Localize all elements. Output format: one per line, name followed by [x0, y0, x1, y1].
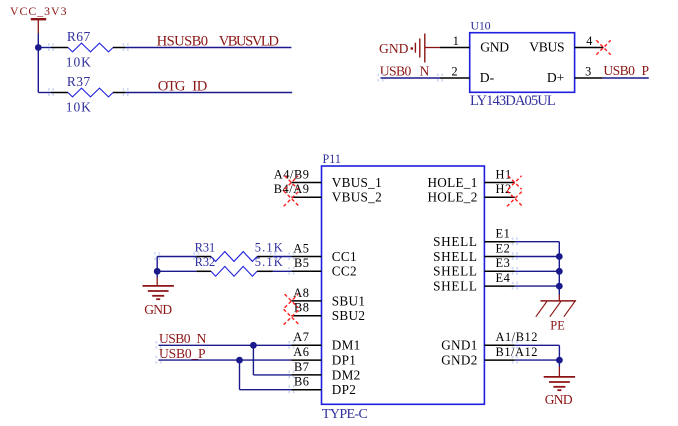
svg-text:SBU2: SBU2 — [332, 308, 365, 323]
svg-text:GND: GND — [545, 392, 573, 407]
svg-text:USB0_P: USB0_P — [159, 346, 206, 361]
no-connect X at pin H2 — [507, 191, 523, 207]
svg-text:B4/A9: B4/A9 — [274, 182, 310, 196]
svg-text:HOLE_1: HOLE_1 — [427, 175, 477, 190]
svg-text:TYPE-C: TYPE-C — [322, 407, 368, 422]
svg-text:5.1K: 5.1K — [255, 240, 284, 254]
svg-text:SBU1: SBU1 — [332, 293, 365, 308]
pin A7 / DM1 of P11 — [291, 330, 360, 353]
svg-text:USB0: USB0 — [159, 331, 191, 346]
net label USB0_P (U10) — [603, 63, 649, 78]
svg-text:PE: PE — [550, 319, 565, 333]
svg-text:VBUS_2: VBUS_2 — [332, 190, 382, 205]
junction GND2 — [556, 357, 563, 364]
junction E3 — [556, 268, 563, 275]
resistor R31 5.1K — [195, 240, 284, 261]
wire shell bus vertical — [558, 242, 560, 295]
svg-text:A4/B9: A4/B9 — [274, 167, 310, 181]
pin B1/A12 / GND2 of P11 — [441, 345, 538, 368]
pin E2 / SHELL of P11 — [433, 241, 515, 264]
svg-text:DM2: DM2 — [332, 367, 361, 382]
wire R31 to pin A5 — [273, 256, 292, 258]
svg-text:HSUSB0: HSUSB0 — [157, 33, 208, 49]
no-connect X at pin A4/B9 — [285, 176, 299, 190]
pin E4 / SHELL of P11 — [433, 271, 515, 294]
svg-text:B5: B5 — [294, 256, 310, 270]
svg-text:A7: A7 — [293, 330, 309, 344]
svg-text:E2: E2 — [496, 241, 511, 255]
junction CC2 / GND — [154, 268, 161, 275]
svg-text:VCC_3V3: VCC_3V3 — [10, 4, 67, 18]
wire to pin B7 — [253, 374, 291, 376]
svg-text:DM1: DM1 — [332, 338, 361, 353]
svg-text:VBUS: VBUS — [529, 40, 564, 55]
svg-text:5.1K: 5.1K — [255, 255, 284, 269]
pin A8 / SBU1 of P11 — [291, 286, 365, 309]
wire vertical DM1 to DM2 — [252, 345, 254, 375]
svg-text:USB0: USB0 — [380, 63, 412, 78]
wire CC1 row from corner to R31 — [157, 256, 196, 258]
svg-text:B7: B7 — [294, 360, 310, 374]
pin A6 / DP1 of P11 — [291, 345, 356, 368]
wire E3 to bus — [515, 270, 560, 272]
ground GND (right) — [544, 367, 575, 408]
svg-text:A5: A5 — [293, 241, 309, 255]
pin A4/B9 / VBUS_1 of P11 — [274, 167, 382, 190]
wire junction to R37 — [38, 92, 51, 94]
svg-text:SHELL: SHELL — [433, 279, 478, 294]
wire vertical CC corner — [156, 257, 158, 272]
wire vertical DP1 to DP2 — [239, 360, 241, 390]
svg-text:D-: D- — [480, 70, 495, 85]
svg-text:SHELL: SHELL — [433, 249, 478, 264]
pin B7 / DM2 of P11 — [291, 360, 360, 383]
svg-text:2: 2 — [452, 64, 458, 78]
junction DP1/DP2 — [236, 357, 243, 364]
wire junction to R67 — [38, 47, 51, 49]
wire E1 to shell bus — [515, 241, 560, 243]
op-amp U10 box — [470, 33, 575, 93]
wire net USB0_N (to U10 pin 2) — [381, 77, 441, 79]
net label USB0_N (U10) — [380, 63, 430, 78]
svg-text:4: 4 — [586, 34, 592, 48]
wire gnd bus vertical — [558, 345, 560, 366]
svg-text:D+: D+ — [547, 70, 564, 85]
svg-text:10K: 10K — [66, 54, 92, 69]
svg-text:CC2: CC2 — [332, 264, 357, 279]
wire net USB0_P row A6 — [159, 359, 292, 361]
svg-text:10K: 10K — [66, 99, 92, 114]
svg-text:DP2: DP2 — [332, 382, 356, 397]
svg-text:H1: H1 — [496, 167, 512, 181]
chassis ground PE — [536, 295, 576, 333]
svg-text:E4: E4 — [496, 271, 511, 285]
svg-text:USB0: USB0 — [603, 63, 635, 78]
svg-text:B6: B6 — [294, 375, 310, 389]
svg-text:R31: R31 — [195, 240, 216, 254]
svg-text:GND: GND — [480, 40, 509, 55]
svg-text:OTG: OTG — [158, 79, 186, 95]
svg-text:E3: E3 — [496, 256, 511, 270]
svg-text:P: P — [642, 63, 650, 78]
svg-text:H2: H2 — [496, 182, 512, 196]
svg-text:SHELL: SHELL — [433, 234, 478, 249]
pin B4/A9 / VBUS_2 of P11 — [274, 182, 382, 205]
junction E2 — [556, 253, 563, 260]
no-connect X at pin B4/A9 — [284, 191, 300, 207]
net label HSUSB0_VBUSVLD — [157, 33, 279, 49]
net label USB0_N — [159, 331, 207, 346]
pin 3 of U10 — [575, 64, 603, 78]
svg-text:N: N — [197, 331, 207, 346]
wire GND1 to bus — [515, 344, 560, 346]
resistor R32 5.1K — [195, 255, 284, 276]
junction DM1/DM2 — [250, 342, 257, 349]
pin E3 / SHELL of P11 — [433, 256, 515, 279]
wire to pin B6 — [240, 389, 292, 391]
pin 1 of U10 — [440, 34, 470, 48]
wire E4 to bus — [515, 285, 560, 287]
svg-text:U10: U10 — [471, 18, 491, 32]
no-connect X at pin A8 — [285, 294, 299, 308]
svg-text:N: N — [420, 63, 430, 78]
pin A1/B12 / GND1 of P11 — [441, 330, 538, 353]
pin 4 of U10 — [575, 34, 604, 48]
no-connect X at pin B8 — [284, 309, 300, 325]
svg-text:GND2: GND2 — [441, 353, 477, 368]
no-connect X at U10 pin 4 — [596, 40, 610, 54]
pin H2 / HOLE_2 of P11 — [427, 182, 514, 205]
svg-text:1: 1 — [453, 34, 459, 48]
svg-text:VBUS_1: VBUS_1 — [332, 175, 382, 190]
connector P11 box — [322, 166, 485, 404]
net label OTG_ID — [158, 79, 207, 95]
resistor R67 10K — [51, 29, 126, 70]
svg-text:R67: R67 — [67, 29, 91, 44]
svg-text:LY143DA05UL: LY143DA05UL — [470, 93, 556, 109]
svg-text:A8: A8 — [293, 286, 309, 300]
wire CC2 row from junction to R32 — [157, 270, 196, 272]
pin B8 / SBU2 of P11 — [291, 301, 365, 324]
svg-text:DP1: DP1 — [332, 353, 356, 368]
svg-text:R37: R37 — [67, 74, 91, 89]
power port VCC_3V3 — [10, 4, 67, 33]
svg-text:3: 3 — [585, 64, 591, 78]
resistor R37 10K — [51, 74, 126, 115]
wire GND2 to bus — [515, 359, 560, 361]
wire net HSUSB0_VBUSVLD — [126, 47, 292, 49]
pin E1 / SHELL of P11 — [433, 227, 515, 250]
wire net OTG_ID — [126, 92, 293, 94]
wire net USB0_P (from U10 pin 3) — [603, 77, 649, 79]
svg-text:P11: P11 — [323, 152, 341, 166]
wire net USB0_N row A7 — [159, 344, 292, 346]
svg-text:CC1: CC1 — [332, 249, 357, 264]
svg-text:VBUSVLD: VBUSVLD — [219, 33, 279, 49]
svg-text:R32: R32 — [195, 255, 216, 269]
svg-text:A6: A6 — [293, 345, 309, 359]
wire VCC_3V3 vertical to R67/R37 — [37, 34, 39, 93]
svg-text:HOLE_2: HOLE_2 — [427, 190, 477, 205]
wire R32 to pin B5 — [273, 270, 292, 272]
pin B5 / CC2 of P11 — [291, 256, 356, 279]
pin A5 / CC1 of P11 — [291, 241, 356, 264]
junction at VCC and R67 — [35, 44, 42, 51]
svg-text:GND: GND — [379, 41, 409, 56]
svg-text:ID: ID — [192, 79, 207, 95]
svg-text:GND: GND — [144, 302, 172, 317]
pin H1 / HOLE_1 of P11 — [427, 167, 514, 190]
pin B6 / DP2 of P11 — [291, 375, 356, 398]
ground GND (left) — [143, 278, 174, 317]
power port GND at U10 pin 1 — [379, 34, 440, 63]
no-connect X at pin H1 — [508, 176, 522, 190]
junction E4 — [556, 283, 563, 290]
svg-text:SHELL: SHELL — [433, 264, 478, 279]
svg-text:E1: E1 — [496, 227, 511, 241]
svg-text:GND1: GND1 — [441, 338, 477, 353]
wire E2 to bus — [515, 256, 560, 258]
pin 2 of U10 — [440, 64, 470, 78]
wire junction down to GND — [156, 271, 158, 277]
